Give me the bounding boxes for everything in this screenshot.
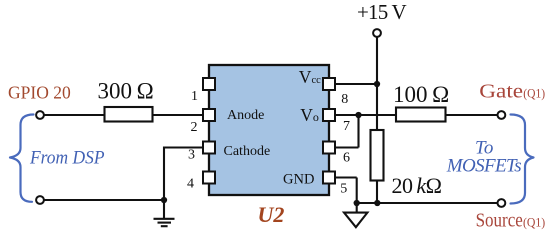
svg-text:100 Ω: 100 Ω (393, 82, 449, 107)
svg-text:Gate: Gate (479, 81, 523, 102)
svg-text:6: 6 (343, 151, 350, 166)
svg-text:(Q1): (Q1) (523, 86, 545, 100)
svg-text:+15 V: +15 V (357, 0, 407, 24)
svg-text:GND: GND (283, 172, 314, 188)
svg-text:4: 4 (187, 177, 194, 192)
svg-text:2: 2 (191, 120, 198, 135)
svg-text:From DSP: From DSP (29, 149, 104, 169)
svg-text:Source: Source (476, 210, 523, 231)
svg-text:8: 8 (341, 92, 348, 107)
svg-text:5: 5 (340, 182, 347, 197)
svg-text:U2: U2 (258, 202, 285, 227)
svg-text:300 Ω: 300 Ω (98, 79, 154, 104)
svg-text:Cathode: Cathode (224, 144, 271, 159)
svg-text:GPIO 20: GPIO 20 (8, 83, 71, 103)
svg-text:20 kΩ: 20 kΩ (392, 173, 442, 198)
svg-text:Anode: Anode (227, 108, 264, 123)
svg-text:MOSFETs: MOSFETs (446, 155, 522, 176)
svg-text:1: 1 (191, 89, 198, 104)
svg-text:(Q1): (Q1) (523, 215, 545, 229)
svg-text:7: 7 (343, 119, 350, 134)
svg-text:3: 3 (188, 147, 195, 162)
